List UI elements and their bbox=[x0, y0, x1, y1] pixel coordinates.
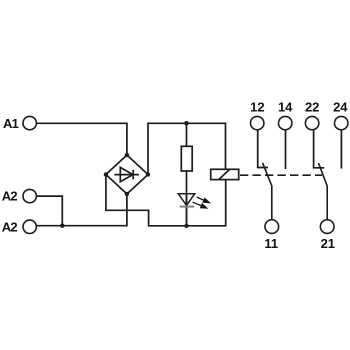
svg-text:11: 11 bbox=[264, 236, 278, 251]
svg-text:14: 14 bbox=[278, 100, 293, 115]
svg-text:12: 12 bbox=[250, 100, 264, 115]
svg-text:24: 24 bbox=[333, 100, 348, 115]
svg-text:22: 22 bbox=[305, 100, 319, 115]
svg-text:21: 21 bbox=[321, 236, 335, 251]
svg-text:A2: A2 bbox=[2, 189, 18, 204]
svg-text:A1: A1 bbox=[3, 116, 19, 131]
svg-text:A2: A2 bbox=[2, 219, 18, 234]
